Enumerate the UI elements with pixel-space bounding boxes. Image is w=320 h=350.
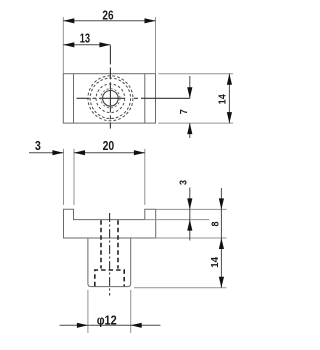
svg-text:3: 3 [35,139,41,153]
hole inner circle [103,91,119,107]
arrow 7 down at centerline [187,87,192,98]
extension line bottom edge rightward [158,122,233,124]
hidden thread line right [117,220,119,268]
arrow 20 right [134,150,145,155]
arrow 14 down at stem bottom [219,277,224,288]
svg-text:20: 20 [103,139,115,153]
thread dashed circle r9.6 [101,89,120,108]
extension line stem bottom rightward [134,287,227,289]
arrow 20 left [74,150,85,155]
svg-text:φ12: φ12 [97,314,117,328]
hidden recess box [95,270,124,286]
svg-text:26: 26 [102,8,113,22]
svg-text:3: 3 [179,180,190,185]
arrow 13 left [63,42,74,47]
svg-text:13: 13 [80,32,90,46]
top view plate outline 26x14 [63,74,155,123]
hidden thread line left [100,220,102,268]
dimension line 26 [63,20,155,22]
arrow 8/14 up at flange bottom [219,238,224,249]
arrow 14 down [227,112,232,123]
stem outline front view [88,238,131,287]
extension line front view left edge [63,149,65,205]
slot floor extension line rightward [145,219,210,221]
knurl dashed circle r20.2 [90,78,130,118]
arrow 3 up at slot floor [187,220,192,231]
svg-text:8: 8 [211,221,222,226]
svg-text:14: 14 [218,94,229,104]
arrow 8 down at rail top [219,198,224,209]
dimension line phi12 [60,324,161,326]
extension line flange bottom rightward [156,237,227,239]
extension line rail top rightward [156,208,227,210]
counterbore dashed circle r14.3 [96,84,125,113]
arrow 13 right [99,42,110,47]
svg-text:14: 14 [210,257,221,268]
arrow 3 down at rail top [187,198,192,209]
arrow 3 right-pointing [52,150,63,155]
hole centerline vertical top view [109,45,111,128]
hole centerline horizontal top view [77,97,190,99]
dimension line 3 vertical right [189,188,191,241]
extension line front view boss left [73,149,75,205]
svg-text:7: 7 [179,109,190,114]
arrow 7 up at bottom edge [187,123,192,134]
boss left edge (top view) [73,74,75,123]
dimension line 20 [74,152,145,154]
dimension line 7 upper segment [189,76,191,98]
extension line stem left for phi12 [87,290,89,333]
front view flange outline with rails [64,209,156,238]
dimension line 13 [63,44,110,46]
dimension line 7 lower segment [189,123,191,138]
extension line top edge rightward [158,73,233,75]
arrow 14 up [227,74,232,85]
arrow phi12 left-pointing [131,323,142,328]
knurl dashed circle r22.5 [88,76,133,121]
extension line right edge top view [155,17,157,74]
arrow 26 right [145,18,156,23]
centerline front view [109,213,111,296]
extension line stem right for phi12 [130,290,132,333]
dimension line 14 top right [228,74,230,123]
arrow 26 left [63,18,74,23]
arrow phi12 right-pointing [77,323,88,328]
boss right edge (top view) [144,74,146,123]
extension line front view boss right [144,149,146,205]
extension line left edge top view [62,17,64,74]
dimension leader 3 [29,152,63,154]
dimension line 8/14 vertical right [220,188,222,288]
